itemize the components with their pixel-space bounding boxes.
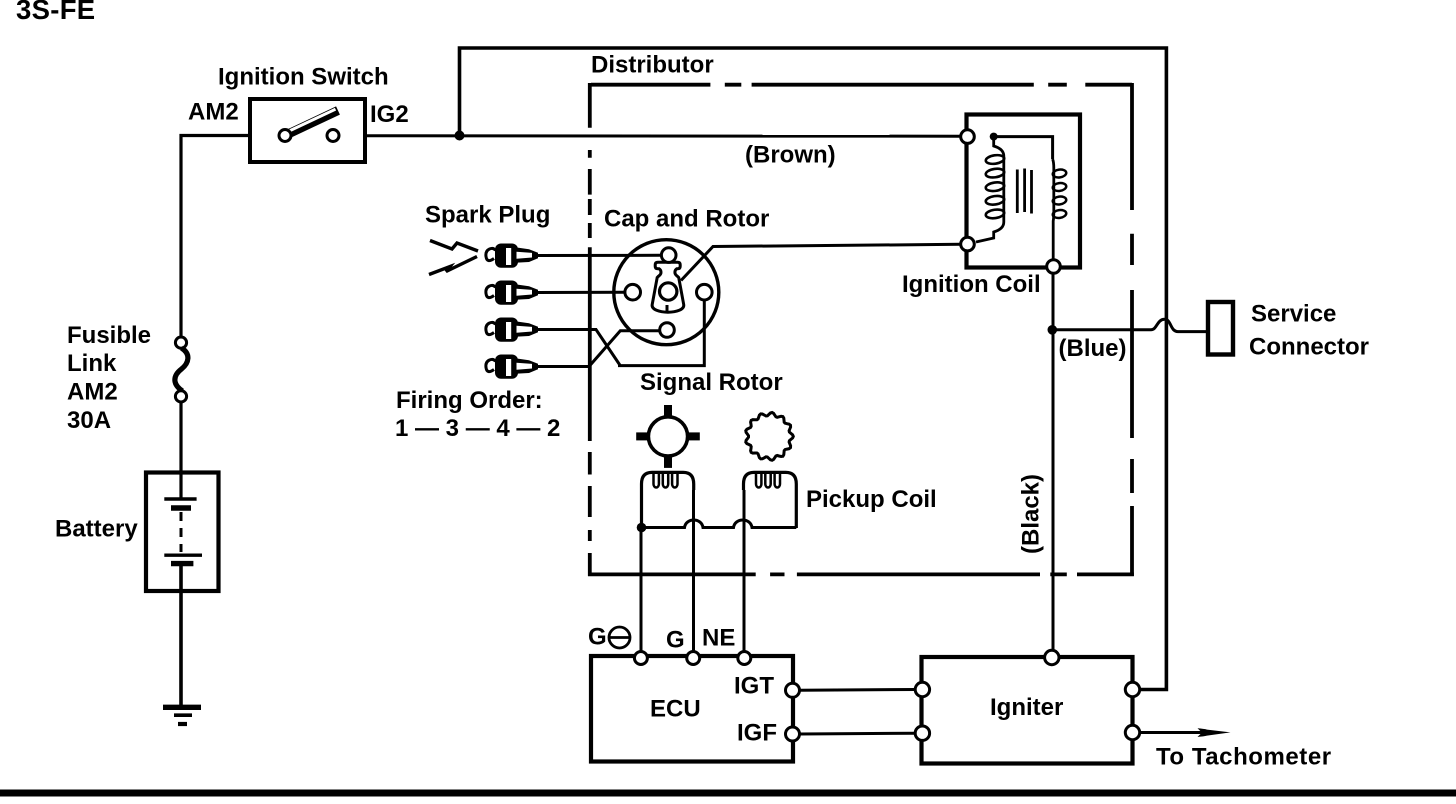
wire to tachometer with arrow xyxy=(1140,731,1208,734)
switch lever xyxy=(287,111,338,135)
igniter terminal right top xyxy=(1125,682,1139,696)
svg-text:(Black): (Black) xyxy=(1018,474,1045,554)
ignition coil box xyxy=(967,115,1081,268)
igniter terminal IGF xyxy=(915,726,929,740)
svg-text:IGT: IGT xyxy=(734,673,774,700)
wire IGT ECU to igniter xyxy=(800,688,916,692)
cap terminal top xyxy=(661,248,676,263)
wire AM2 from switch to fusible link xyxy=(181,136,250,338)
spark plug P4 xyxy=(486,355,538,379)
wire coil to junction and down (Black) to igniter xyxy=(1052,273,1055,651)
coil secondary winding xyxy=(1053,159,1054,260)
svg-text:Igniter: Igniter xyxy=(990,694,1063,721)
bottom rule xyxy=(0,790,1456,797)
svg-text:Fusible: Fusible xyxy=(67,322,151,349)
svg-text:Cap and Rotor: Cap and Rotor xyxy=(604,206,769,233)
svg-text:G: G xyxy=(588,624,607,651)
cap terminal right xyxy=(697,284,713,300)
node junction pickup ground xyxy=(637,523,647,533)
svg-text:Connector: Connector xyxy=(1249,334,1369,361)
switch contact right xyxy=(327,130,339,142)
fusible link FL xyxy=(175,337,186,348)
spark plug P2 xyxy=(486,281,538,305)
switch contact left xyxy=(279,130,291,142)
svg-text:To Tachometer: To Tachometer xyxy=(1156,744,1332,771)
wire lower rail to cap right terminal xyxy=(618,301,704,366)
coil core xyxy=(1017,169,1031,214)
spark plug P1 xyxy=(486,244,538,268)
distributor box (dash-dot outline) xyxy=(588,83,1134,576)
node junction at IG2 wire xyxy=(455,131,465,141)
ECU terminal IGF xyxy=(786,727,800,741)
wire plug1 to cap top terminal xyxy=(538,254,662,257)
battery cell plates xyxy=(164,497,196,500)
ECU box xyxy=(591,656,793,762)
svg-text:1 — 3 — 4 — 2: 1 — 3 — 4 — 2 xyxy=(395,415,560,442)
coil terminal bottom-left xyxy=(961,237,975,251)
pickup coil 1 loops xyxy=(654,473,678,488)
node junction blue/service xyxy=(1048,325,1058,335)
svg-text:Battery: Battery xyxy=(55,516,138,543)
ECU terminal NE xyxy=(738,652,751,665)
igniter terminal top xyxy=(1045,650,1059,664)
svg-text:NE: NE xyxy=(702,625,735,652)
svg-text:G: G xyxy=(666,627,685,654)
cap terminal left xyxy=(625,284,641,300)
igniter terminal right bottom xyxy=(1125,725,1139,739)
cap terminal bottom xyxy=(660,323,675,338)
right edge xyxy=(1130,83,1134,576)
coil primary winding xyxy=(976,137,1004,242)
wire plug3 diagonal down to lower rail xyxy=(538,330,620,366)
wire plug4 diagonal up to cap bottom terminal xyxy=(538,331,660,367)
svg-text:ECU: ECU xyxy=(650,696,701,723)
pickup coil 1 body xyxy=(642,472,694,528)
svg-text:3S-FE: 3S-FE xyxy=(16,0,95,25)
service connector box xyxy=(1208,302,1233,355)
node junction primary/secondary xyxy=(990,133,998,141)
svg-text:30A: 30A xyxy=(67,407,111,434)
wire fusible link to battery xyxy=(179,402,182,499)
pickup coil 2 body xyxy=(744,472,797,528)
ground xyxy=(163,705,201,710)
svg-text:Firing Order:: Firing Order: xyxy=(396,387,543,414)
svg-text:Service: Service xyxy=(1251,300,1336,327)
wire battery to ground xyxy=(179,564,183,705)
bottom edge xyxy=(588,573,1134,577)
left edge xyxy=(588,83,592,576)
ignition switch SW1 box xyxy=(250,99,365,162)
igniter terminal IGT xyxy=(915,682,929,696)
signal rotor G (4-lobe) xyxy=(648,417,687,456)
igniter box xyxy=(922,657,1133,764)
wire IGF ECU to igniter xyxy=(800,732,916,736)
wire to ECU NE xyxy=(743,490,746,652)
rotor contact circle xyxy=(660,283,677,300)
top edge xyxy=(591,83,1132,87)
ECU terminal IGT xyxy=(786,683,800,697)
spark lightning bolt xyxy=(430,241,478,252)
ECU terminal G- xyxy=(634,652,647,665)
signal rotor NE (toothed) xyxy=(746,413,794,461)
wire outer loop: up over top, down right side, into igniter xyxy=(460,48,1167,690)
ECU terminal G xyxy=(687,652,700,665)
battery B box xyxy=(146,473,219,592)
wire plug2 to cap left terminal xyxy=(538,291,625,294)
wire from ignition coil to rotor xyxy=(681,244,961,280)
svg-text:Link: Link xyxy=(67,350,117,377)
coil terminal bottom xyxy=(1047,260,1061,274)
svg-text:AM2: AM2 xyxy=(67,379,118,406)
wire junction to service connector with hop xyxy=(1052,319,1208,331)
distributor cap circle xyxy=(614,240,719,345)
coil terminal top-left xyxy=(961,130,975,144)
svg-text:Signal Rotor: Signal Rotor xyxy=(640,369,783,396)
wire to ECU G- xyxy=(640,528,643,653)
svg-text:AM2: AM2 xyxy=(188,99,239,126)
wire to ECU G xyxy=(692,490,695,652)
svg-text:Ignition Switch: Ignition Switch xyxy=(218,64,389,91)
rotor xyxy=(652,262,684,312)
svg-text:IG2: IG2 xyxy=(370,101,409,128)
svg-text:(Blue): (Blue) xyxy=(1059,335,1127,362)
wire IG2 (Brown) to ignition coil xyxy=(365,134,961,137)
coil secondary top wire xyxy=(994,137,1053,159)
svg-text:Distributor: Distributor xyxy=(591,52,714,79)
svg-text:Spark Plug: Spark Plug xyxy=(425,202,550,229)
pickup coil 2 loops xyxy=(756,473,780,488)
spark plug P3 xyxy=(486,318,538,342)
pickup bottom rail with hops xyxy=(642,520,797,528)
svg-text:Ignition Coil: Ignition Coil xyxy=(902,271,1041,298)
svg-text:IGF: IGF xyxy=(737,720,777,747)
svg-text:Pickup Coil: Pickup Coil xyxy=(806,486,937,513)
svg-text:(Brown): (Brown) xyxy=(745,142,836,169)
